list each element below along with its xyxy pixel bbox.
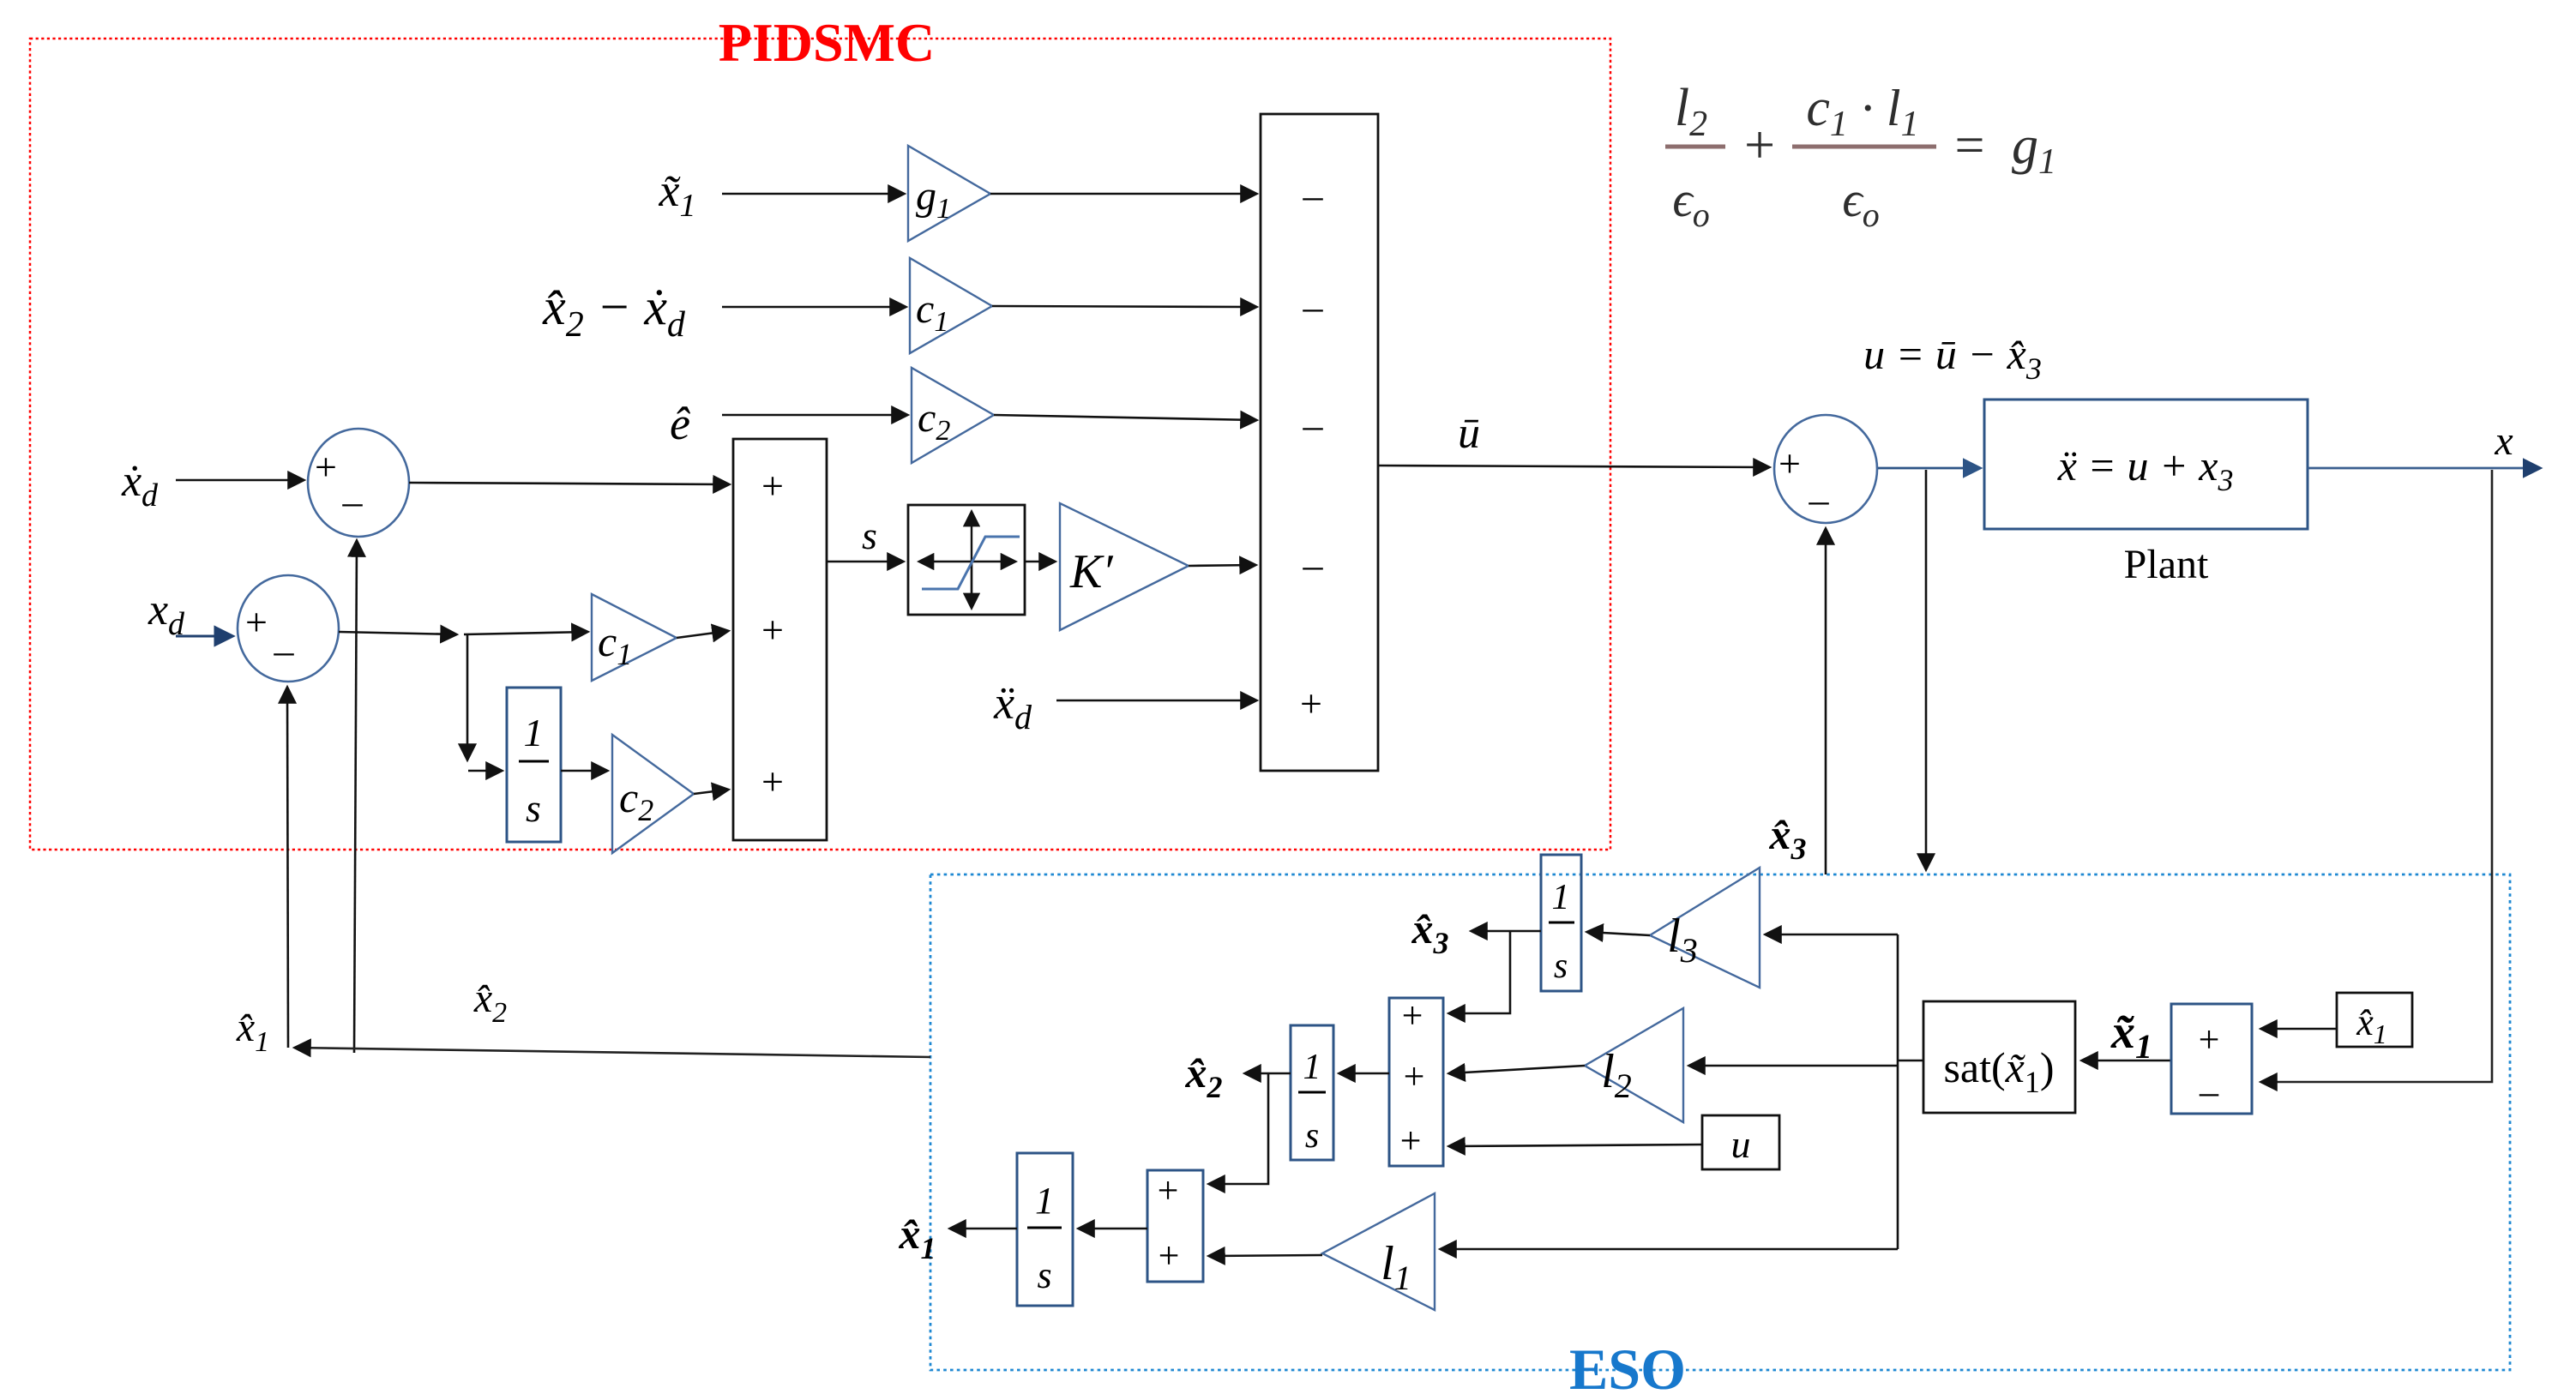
svg-text:x̂3: x̂3 — [1769, 810, 1807, 866]
svg-text:l2: l2 — [1601, 1045, 1632, 1105]
svg-text:c1: c1 — [916, 286, 948, 338]
branch wire down from node — [466, 634, 469, 760]
svg-text:+: + — [1159, 1235, 1180, 1277]
summing junction S1 — [308, 429, 409, 537]
svg-text:g1: g1 — [2012, 117, 2056, 182]
integrator 1/s bottom box — [1017, 1153, 1073, 1306]
svg-text:c1 · l1: c1 · l1 — [1806, 79, 1918, 144]
gain l2 triangle — [1585, 1008, 1683, 1122]
svg-text:Plant: Plant — [2124, 542, 2209, 587]
svg-text:–: – — [1303, 285, 1324, 328]
summing junction S3 — [1774, 415, 1877, 523]
wire c2 to sign block row3 — [994, 415, 1256, 420]
svg-text:s: s — [862, 514, 877, 557]
sat junction vertical wire — [1897, 934, 1899, 1249]
wire xd to sum S2 — [176, 635, 232, 638]
svg-text:l3: l3 — [1667, 910, 1698, 970]
svg-text:+: + — [761, 608, 784, 652]
wire xhat1 box to pm box — [2261, 1028, 2337, 1030]
gain g1 triangle — [908, 146, 990, 241]
wire branch node to c1 lower — [464, 632, 587, 634]
svg-text:1: 1 — [1303, 1048, 1321, 1087]
wire xhat2 out of 1/s mid — [1245, 1073, 1291, 1075]
feedback vertical xhat1 to S2 — [287, 688, 288, 1048]
svg-text:1: 1 — [1035, 1180, 1054, 1222]
fraction bar 2 — [1792, 145, 1936, 149]
PIDSMC dashed boundary box — [30, 39, 1610, 850]
svg-text:x: x — [2494, 418, 2513, 464]
branch wire into integrator 1/s — [468, 770, 502, 772]
svg-text:1: 1 — [524, 711, 544, 754]
svg-text:x̃1: x̃1 — [2110, 1006, 2152, 1066]
svg-text:x̂2 − ẋd: x̂2 − ẋd — [542, 279, 686, 345]
saturation block box — [908, 505, 1025, 615]
wire sat to K gain — [1025, 561, 1055, 563]
wire xdotd to sum S1 — [176, 479, 304, 482]
svg-text:ū: ū — [1458, 409, 1480, 458]
wire xhat2-xdotd to c1 — [722, 306, 906, 309]
wire sat junction to l1 — [1441, 1248, 1898, 1251]
saturation vertical axis — [971, 512, 972, 607]
wire xtilde1 to g1 — [722, 193, 904, 195]
wire S3 to plant — [1878, 467, 1980, 470]
wire l1 to sum B — [1209, 1255, 1322, 1256]
svg-text:+: + — [761, 464, 784, 508]
gain K prime triangle — [1060, 503, 1189, 630]
svg-text:s: s — [1037, 1254, 1051, 1296]
svg-text:+: + — [761, 760, 784, 803]
svg-text:ESO: ESO — [1569, 1337, 1686, 1400]
pm compare box — [2171, 1004, 2252, 1114]
svg-text:x̂2: x̂2 — [473, 976, 507, 1029]
svg-text:+: + — [1400, 1120, 1422, 1162]
xhat1 source box — [2337, 993, 2412, 1047]
svg-text:l1: l1 — [1381, 1237, 1411, 1297]
svg-text:s: s — [526, 786, 541, 830]
sum block A (3 inputs) — [1389, 998, 1443, 1166]
svg-text:ê: ê — [670, 398, 690, 449]
svg-text:ẍd: ẍd — [993, 677, 1032, 736]
wire c1 to sign block row2 — [992, 306, 1256, 307]
svg-text:PIDSMC: PIDSMC — [719, 12, 935, 73]
svg-text:=: = — [1955, 117, 1985, 175]
svg-text:x̂2: x̂2 — [1185, 1048, 1223, 1104]
PIDSMC TOP ROWS — [542, 146, 1256, 463]
svg-text:ẋd: ẋd — [121, 457, 159, 514]
wire g1 to sign block row1 — [990, 193, 1256, 195]
feedback vertical xhat3 into S3 — [1825, 529, 1827, 874]
wire sat junction to l3 — [1766, 934, 1898, 936]
gain l3 triangle — [1650, 868, 1760, 988]
svg-text:+: + — [2199, 1018, 2220, 1061]
branch wire xhat2 down to sum B — [1209, 1073, 1268, 1184]
svg-text:x̃1: x̃1 — [659, 165, 696, 224]
summing junction S2 — [238, 575, 339, 682]
svg-text:g1: g1 — [916, 173, 951, 225]
wire c2 lower to plus block — [694, 790, 728, 794]
RIGHT SIDE — [1769, 330, 2541, 1082]
u box — [1702, 1115, 1779, 1169]
wire sum A to 1/s mid — [1339, 1073, 1389, 1075]
fraction bar 1 — [1665, 145, 1725, 149]
wire xhat1 out of 1/s bottom — [950, 1228, 1017, 1230]
wire S2 output to branch node — [339, 632, 456, 634]
svg-text:–: – — [2199, 1071, 2219, 1113]
svg-text:xd: xd — [147, 586, 185, 642]
svg-text:+: + — [1300, 682, 1322, 725]
branch wire u down into ESO — [1925, 470, 1928, 869]
svg-text:x̂1: x̂1 — [236, 1005, 269, 1058]
wire l2 to sum A — [1449, 1066, 1585, 1073]
integrator 1/s PID box — [507, 688, 561, 842]
svg-text:+: + — [1402, 994, 1423, 1036]
sat(xtilde1) box — [1923, 1001, 2075, 1113]
wire sat output to junction — [1898, 1060, 1923, 1062]
wire l3 to 1/s top — [1587, 932, 1650, 935]
wire u box to sum A — [1449, 1145, 1702, 1146]
feedback vertical xhat2 to S1 — [354, 541, 357, 1053]
wire xhat3 out of 1/s top — [1472, 930, 1541, 933]
PIDSMC LEFT SUMS — [121, 429, 930, 1058]
svg-text:+: + — [1158, 1169, 1179, 1211]
PID plus block — [733, 439, 827, 840]
wire xddotd to sign block row5 — [1056, 700, 1256, 702]
svg-text:s: s — [1305, 1116, 1319, 1156]
svg-text:c2: c2 — [918, 395, 950, 447]
svg-text:K′: K′ — [1069, 545, 1113, 598]
gain c1 top triangle — [910, 258, 992, 353]
svg-text:x̂1: x̂1 — [2356, 1001, 2387, 1049]
wire S1 to sign block row1 (ehat) — [409, 483, 729, 484]
svg-text:sat(x̃1): sat(x̃1) — [1943, 1043, 2054, 1099]
PID COLUMN — [507, 439, 1255, 853]
gain c2 top triangle — [912, 368, 994, 463]
svg-text:–: – — [1303, 173, 1324, 217]
gain l1 triangle — [1322, 1193, 1435, 1310]
integrator 1/s top box — [1541, 855, 1581, 991]
feedback wire x down — [2261, 470, 2492, 1082]
sum block B (2 inputs) — [1147, 1170, 1203, 1282]
svg-text:x̂3: x̂3 — [1411, 904, 1449, 960]
svg-text:c1: c1 — [598, 617, 632, 671]
ESO dashed boundary box — [930, 874, 2510, 1370]
svg-text:–: – — [1303, 543, 1324, 586]
svg-text:u = ū − x̂3: u = ū − x̂3 — [1863, 330, 2042, 386]
wire 1/s to c2 lower — [561, 770, 607, 772]
svg-text:c2: c2 — [619, 773, 653, 827]
svg-text:–: – — [1303, 403, 1324, 447]
svg-text:s: s — [1554, 946, 1568, 986]
svg-text:+: + — [1744, 114, 1775, 175]
wire K prime to sign block row4 — [1189, 565, 1255, 566]
svg-text:1: 1 — [1552, 878, 1570, 917]
ESO INTERNALS — [899, 855, 2413, 1310]
wire ubar from sign block to sum S3 — [1378, 466, 1769, 467]
saturation curve — [922, 537, 1020, 589]
svg-text:–: – — [1809, 478, 1830, 521]
svg-text:l2: l2 — [1675, 79, 1707, 144]
sliding surface sign block — [1261, 114, 1378, 771]
svg-text:+: + — [1779, 442, 1801, 485]
wire c1 lower to plus block — [677, 631, 728, 638]
SIGN BLOCK — [993, 114, 1769, 771]
svg-text:ϵo: ϵo — [1672, 171, 1709, 234]
gain c1 lower triangle — [592, 594, 677, 681]
svg-text:–: – — [274, 628, 295, 672]
svg-text:+: + — [315, 445, 337, 489]
gain c2 lower triangle — [612, 735, 694, 853]
integrator 1/s mid box — [1291, 1025, 1333, 1160]
svg-text:+: + — [245, 600, 268, 644]
branch wire xhat3 down to sum A — [1449, 931, 1510, 1013]
wire sum B to 1/s bottom — [1079, 1228, 1147, 1230]
svg-text:ẍ = u + x3: ẍ = u + x3 — [2057, 442, 2234, 497]
wire ehat to c2 — [722, 414, 907, 417]
svg-text:u: u — [1731, 1122, 1751, 1166]
wire s out of plus block — [827, 561, 903, 563]
svg-text:–: – — [342, 479, 364, 523]
long feedback wire from ESO border — [295, 1048, 930, 1057]
EQUATION g1 — [1665, 79, 2056, 234]
svg-text:ϵo: ϵo — [1842, 171, 1879, 234]
wire pm box to sat box — [2082, 1060, 2171, 1062]
saturation horizontal axis — [919, 561, 972, 562]
wire plant output x — [2308, 467, 2540, 470]
wire sat junction to l2 — [1689, 1065, 1898, 1067]
svg-text:+: + — [1404, 1055, 1425, 1097]
plant box — [1984, 400, 2308, 529]
